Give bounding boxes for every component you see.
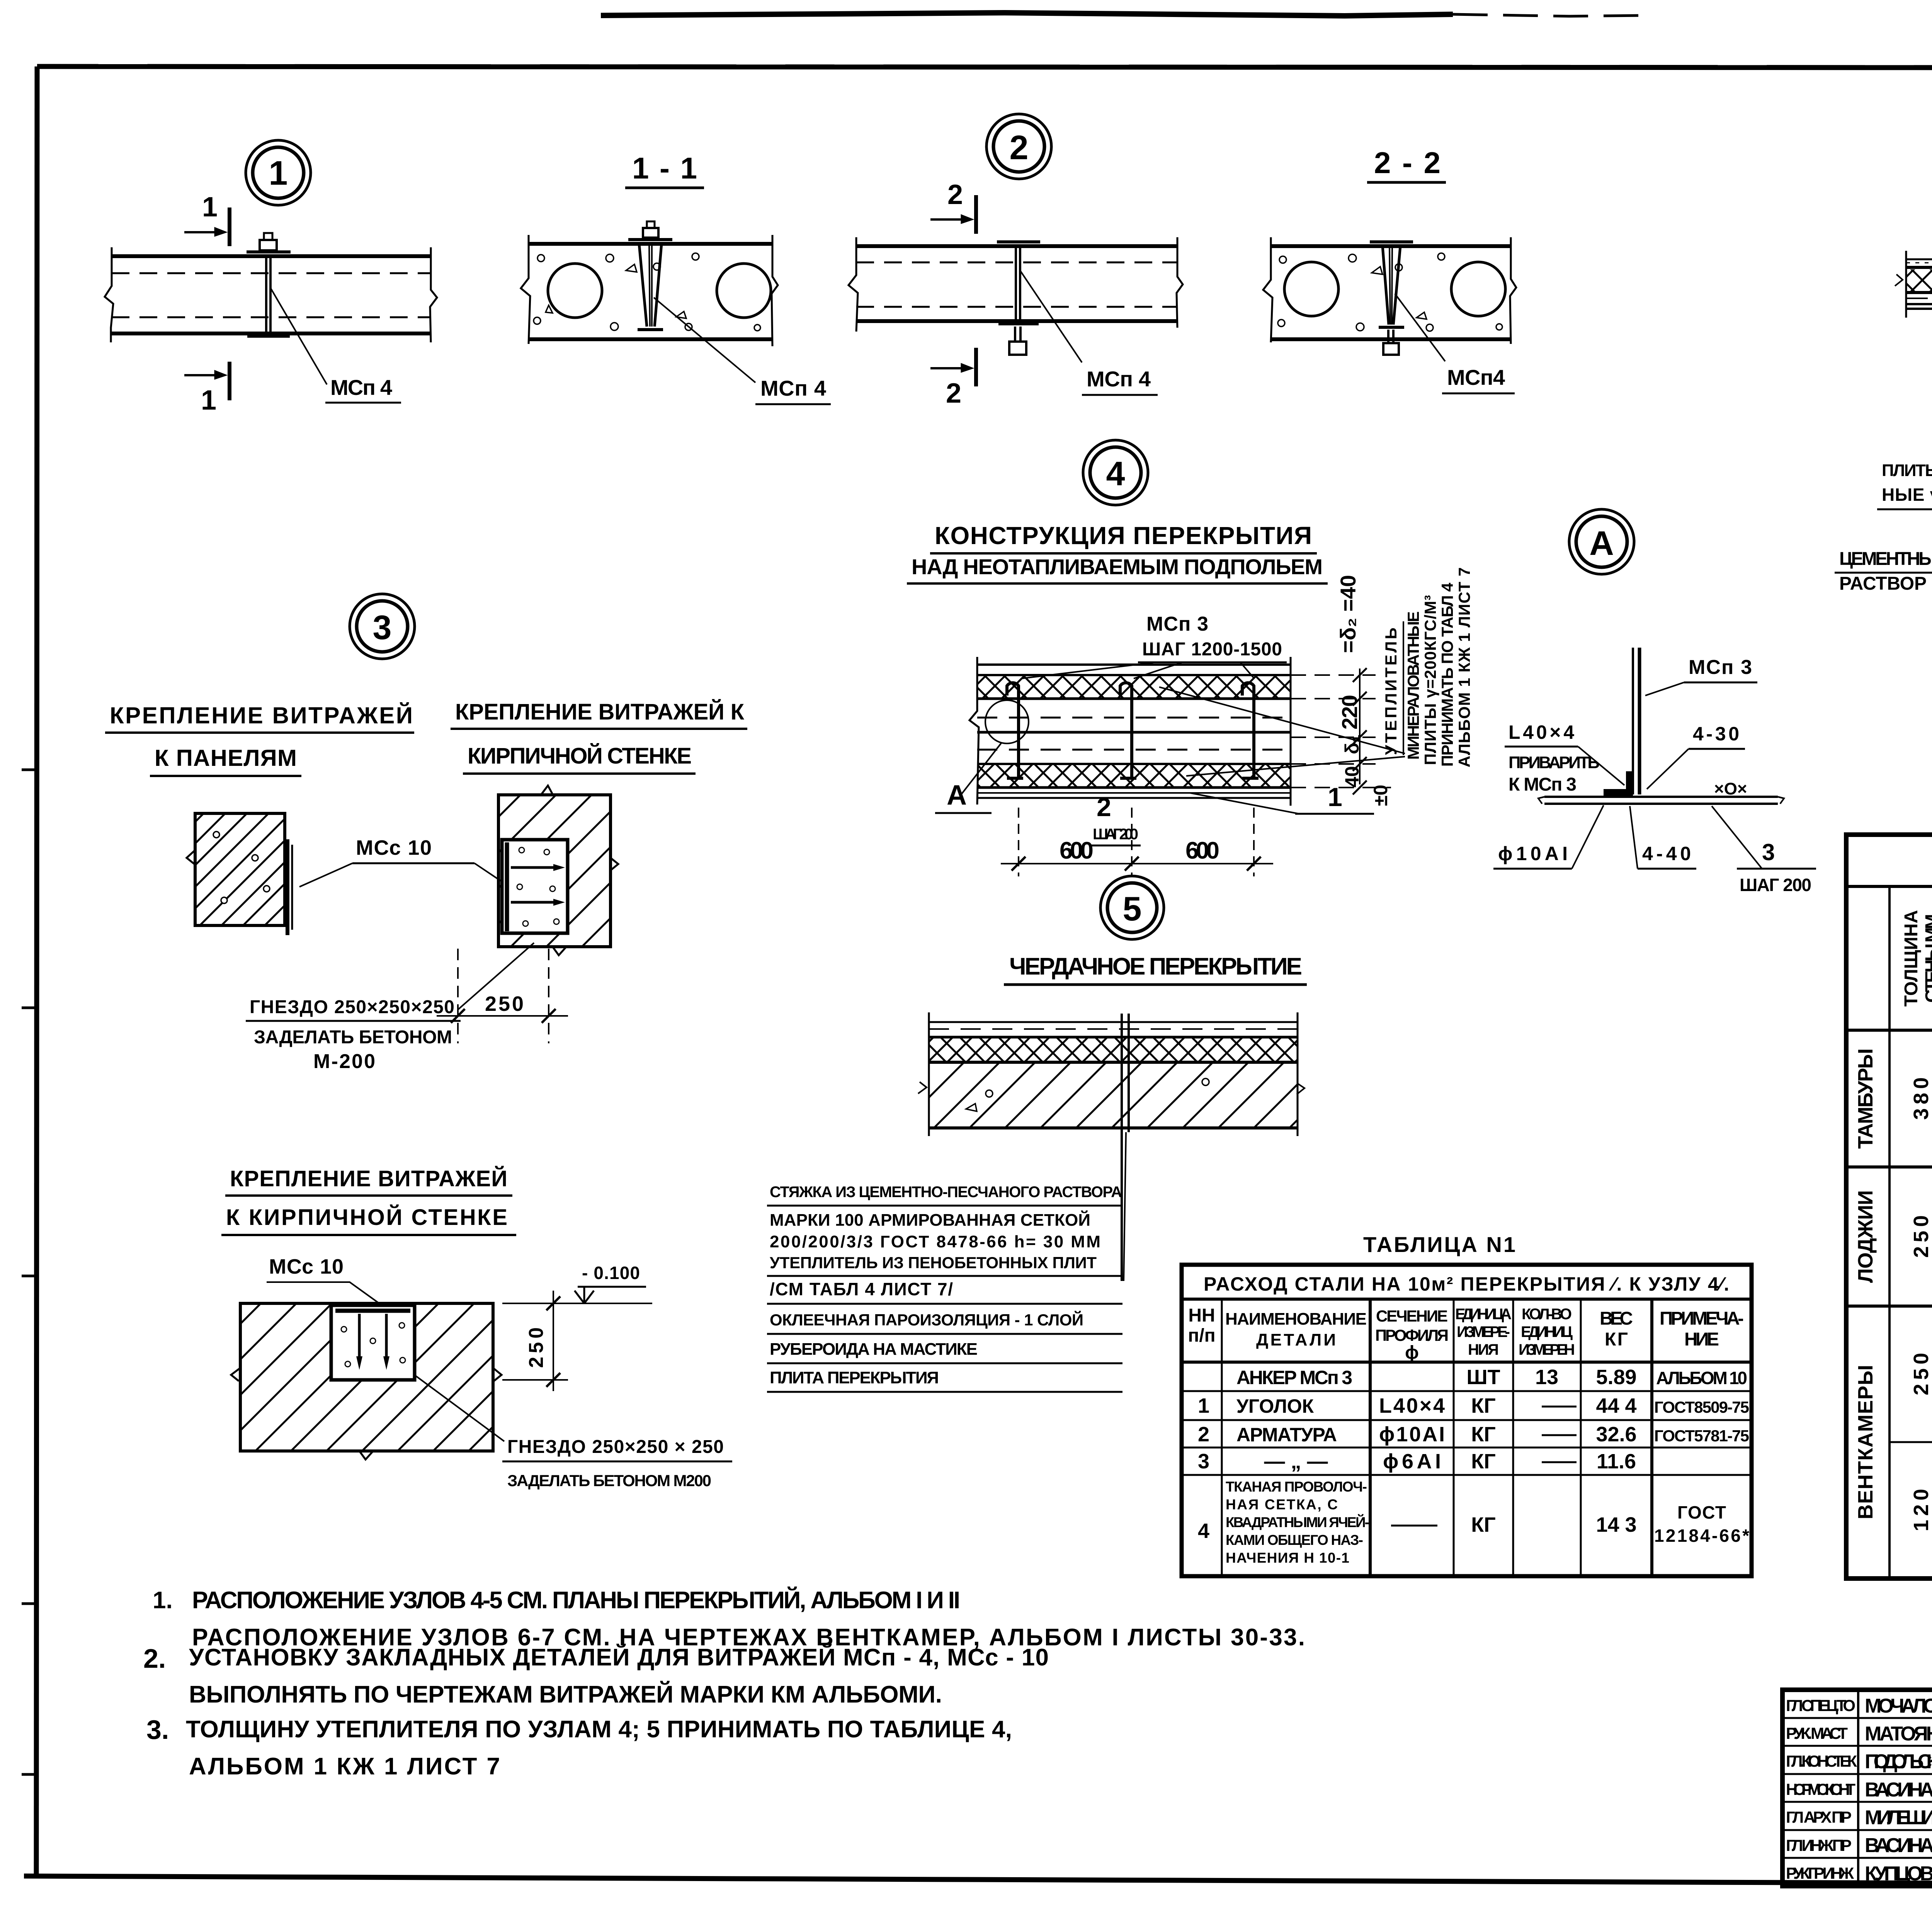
svg-text:600: 600 xyxy=(1060,837,1094,864)
socket with plate and anchors xyxy=(502,840,568,933)
base plate / slab line xyxy=(1544,796,1778,798)
svg-text:РАСТВОР: РАСТВОР xyxy=(1839,573,1927,594)
svg-text:ЦЕМЕНТНЫЙ: ЦЕМЕНТНЫЙ xyxy=(1839,548,1932,569)
svg-text:32.6: 32.6 xyxy=(1596,1423,1636,1446)
svg-text:ШАГ 200: ШАГ 200 xyxy=(1093,826,1138,843)
svg-text:ВЕС: ВЕС xyxy=(1600,1308,1633,1329)
svg-text:МОЧАЛОВ: МОЧАЛОВ xyxy=(1865,1695,1932,1717)
anchor МСп 4 xyxy=(247,233,291,336)
svg-text:250: 250 xyxy=(1910,1215,1932,1258)
svg-text:2: 2 xyxy=(947,179,963,210)
svg-text:220: 220 xyxy=(1337,695,1362,730)
svg-text:МИЛЕШИН: МИЛЕШИН xyxy=(1865,1806,1932,1829)
angle piece xyxy=(1604,771,1633,796)
svg-text:МСп 3: МСп 3 xyxy=(1689,656,1752,679)
svg-text:МСс 10: МСс 10 xyxy=(269,1255,344,1278)
svg-text:ГОСТ8509-75: ГОСТ8509-75 xyxy=(1654,1398,1749,1416)
svg-text:ГЛ. КОНСТЕК: ГЛ. КОНСТЕК xyxy=(1786,1752,1857,1770)
attic floor drawing xyxy=(918,1012,1304,1281)
header rotated texts xyxy=(1901,900,1932,1016)
left labels xyxy=(1786,1696,1857,1882)
svg-text:АЛЬБОМ 1 КЖ 1 ЛИСТ 7: АЛЬБОМ 1 КЖ 1 ЛИСТ 7 xyxy=(189,1753,500,1780)
svg-text:4: 4 xyxy=(1106,454,1125,493)
svg-text:НОРМОКОНТ: НОРМОКОНТ xyxy=(1786,1780,1855,1798)
svg-text:ɸ10АI: ɸ10АI xyxy=(1498,843,1568,864)
svg-text:НИЕ: НИЕ xyxy=(1684,1329,1719,1350)
svg-text:2.: 2. xyxy=(143,1643,166,1674)
svg-text:2: 2 xyxy=(1010,128,1029,167)
svg-text:п/п: п/п xyxy=(1188,1325,1215,1346)
svg-text:СТЯЖКА ИЗ ЦЕМЕНТНО-ПЕСЧАНОГО: СТЯЖКА ИЗ ЦЕМЕНТНО-ПЕСЧАНОГО РАСТВОРА xyxy=(770,1184,1122,1201)
svg-text:ВАСИНА: ВАСИНА xyxy=(1865,1834,1932,1857)
svg-text:ТОЛЩИНА: ТОЛЩИНА xyxy=(1901,910,1922,1007)
svg-text:5: 5 xyxy=(1123,890,1142,928)
svg-text:МАРКИ 100 АРМИРОВАННАЯ СЕТКО: МАРКИ 100 АРМИРОВАННАЯ СЕТКОЙ xyxy=(770,1210,1090,1230)
svg-text:ЕДИНИЦА: ЕДИНИЦА xyxy=(1455,1306,1512,1323)
svg-text:УТЕПЛИТЕЛЬ: УТЕПЛИТЕЛЬ xyxy=(1382,628,1400,755)
svg-text:250: 250 xyxy=(1910,1353,1932,1395)
leaders to rotated text xyxy=(1159,687,1405,754)
svg-text:1: 1 xyxy=(202,192,218,223)
svg-text:РУК. МАСТ: РУК. МАСТ xyxy=(1786,1724,1848,1742)
svg-text:380: 380 xyxy=(1910,1077,1932,1120)
svg-text:ЗАДЕЛАТЬ БЕТОНОМ М200: ЗАДЕЛАТЬ БЕТОНОМ М200 xyxy=(507,1471,711,1490)
svg-text:НАИМЕНОВАНИЕ: НАИМЕНОВАНИЕ xyxy=(1225,1310,1367,1328)
svg-text:К МСп 3: К МСп 3 xyxy=(1509,774,1577,795)
group labels rotated xyxy=(1854,1048,1932,1531)
svg-text:ШАГ 200: ШАГ 200 xyxy=(1740,875,1811,895)
svg-text:4-30: 4-30 xyxy=(1693,723,1739,745)
left rows xyxy=(1782,1717,1932,1719)
svg-text:600: 600 xyxy=(1185,837,1219,864)
svg-text:КРЕПЛЕНИЕ ВИТРАЖЕЙ: КРЕПЛЕНИЕ ВИТРАЖЕЙ xyxy=(230,1166,507,1191)
svg-text:2: 2 xyxy=(1198,1423,1209,1446)
svg-text:ПРИНИМАТЬ ПО ТАБЛ 4: ПРИНИМАТЬ ПО ТАБЛ 4 xyxy=(1438,582,1456,767)
svg-text:УГОЛОК: УГОЛОК xyxy=(1236,1395,1314,1417)
svg-text:1: 1 xyxy=(269,154,288,192)
svg-text:ТКАНАЯ ПРОВОЛОЧ-: ТКАНАЯ ПРОВОЛОЧ- xyxy=(1226,1479,1367,1495)
svg-text:КИРПИЧНОЙ СТЕНКЕ: КИРПИЧНОЙ СТЕНКЕ xyxy=(468,743,692,769)
svg-text:ГЛ ИНЖ ПР: ГЛ ИНЖ ПР xyxy=(1786,1836,1852,1854)
svg-text:ГНЕЗДО 250×250 × 250: ГНЕЗДО 250×250 × 250 xyxy=(507,1437,724,1457)
svg-text:4: 4 xyxy=(1198,1519,1209,1543)
svg-text:/СМ ТАБЛ 4 ЛИСТ 7/: /СМ ТАБЛ 4 ЛИСТ 7/ xyxy=(770,1279,953,1299)
svg-text:120: 120 xyxy=(1910,1489,1932,1531)
leader + label xyxy=(1020,270,1082,362)
cut mark 2 bottom xyxy=(930,348,976,386)
svg-text:ШАГ 1200-1500: ШАГ 1200-1500 xyxy=(1142,639,1282,660)
svg-text:×O×: ×O× xyxy=(1714,779,1747,798)
verticals xyxy=(1888,886,1891,1579)
svg-text:L40×4: L40×4 xyxy=(1379,1394,1445,1417)
svg-text:1: 1 xyxy=(1198,1394,1209,1417)
svg-text:2 - 2: 2 - 2 xyxy=(1374,146,1440,180)
svg-text:ɸ10АI: ɸ10АI xyxy=(1379,1423,1445,1446)
svg-text:КГ: КГ xyxy=(1471,1450,1496,1473)
left panel block xyxy=(187,813,292,935)
right dim chain xyxy=(1291,668,1391,794)
250 dim below xyxy=(437,949,568,1043)
svg-text:НАД НЕОТАПЛИВАЕМЫМ ПОДПОЛЬЕМ: НАД НЕОТАПЛИВАЕМЫМ ПОДПОЛЬЕМ xyxy=(912,555,1323,579)
wall block with socket xyxy=(240,1303,493,1451)
svg-text:АЛЬБОМ 1 КЖ 1 ЛИСТ 7: АЛЬБОМ 1 КЖ 1 ЛИСТ 7 xyxy=(1455,567,1473,767)
svg-text:1 - 1: 1 - 1 xyxy=(632,151,697,185)
leader xyxy=(270,288,327,384)
subgroup split at 3732 (всех кроме c0) xyxy=(1889,1441,1932,1443)
svg-text:АРМАТУРА: АРМАТУРА xyxy=(1236,1424,1337,1446)
svg-text:ИЗМЕРЕ-: ИЗМЕРЕ- xyxy=(1457,1323,1510,1340)
leader + label xyxy=(654,298,755,383)
slab with hollow cores xyxy=(521,235,778,346)
anchor wedge xyxy=(628,221,672,330)
svg-text:ПРОФИЛЯ: ПРОФИЛЯ xyxy=(1375,1326,1449,1344)
svg-text:СТЕНЫ ММ: СТЕНЫ ММ xyxy=(1922,914,1932,1003)
svg-text:НАЯ СЕТКА, С: НАЯ СЕТКА, С xyxy=(1226,1497,1338,1512)
right brick block xyxy=(498,786,618,955)
svg-text:200/200/3/3 ГОСТ 8478-66 h=: 200/200/3/3 ГОСТ 8478-66 h= 30 ММ xyxy=(770,1232,1100,1251)
svg-text:2: 2 xyxy=(946,378,961,409)
svg-text:УТЕПЛИТЕЛЬ ИЗ ПЕНОБЕТОННЫХ ПЛ: УТЕПЛИТЕЛЬ ИЗ ПЕНОБЕТОННЫХ ПЛИТ xyxy=(770,1254,1097,1272)
svg-text:5.89: 5.89 xyxy=(1596,1366,1636,1389)
МСс10 plate strip xyxy=(286,839,289,935)
svg-text:СЕЧЕНИЕ: СЕЧЕНИЕ xyxy=(1376,1307,1448,1325)
svg-text:1: 1 xyxy=(201,385,216,416)
svg-text:МСп 3: МСп 3 xyxy=(1146,613,1208,635)
joint double line xyxy=(1121,1014,1123,1281)
svg-text:НЫЕ γ= 300 КГ/М³: НЫЕ γ= 300 КГ/М³ xyxy=(1882,485,1932,505)
svg-text:ПОДОЛЬСКИЙ: ПОДОЛЬСКИЙ xyxy=(1865,1750,1932,1773)
floor construction xyxy=(969,657,1291,806)
svg-text:РАСПОЛОЖЕНИЕ УЗЛОВ 4-5 СМ.: РАСПОЛОЖЕНИЕ УЗЛОВ 4-5 СМ. ПЛАНЫ ПЕРЕКРЫ… xyxy=(192,1587,960,1614)
svg-text:=δ₂ =40: =δ₂ =40 xyxy=(1336,575,1360,653)
svg-text:МИНЕРАЛОВАТНЫЕ: МИНЕРАЛОВАТНЫЕ xyxy=(1404,611,1422,760)
vertical plate МСп3 xyxy=(1632,648,1634,794)
svg-text:ВЫПОЛНЯТЬ ПО ЧЕРТЕЖАМ ВИТР: ВЫПОЛНЯТЬ ПО ЧЕРТЕЖАМ ВИТРАЖЕЙ МАРКИ КМ … xyxy=(189,1681,942,1708)
anchors МСп3 (three) xyxy=(1007,683,1259,778)
svg-text:ЗАДЕЛАТЬ БЕТОНОМ: ЗАДЕЛАТЬ БЕТОНОМ xyxy=(254,1027,452,1048)
scan artifacts top xyxy=(601,3,1932,1915)
svg-text:ПЛИТЫ γ=200КГС/М³: ПЛИТЫ γ=200КГС/М³ xyxy=(1421,595,1439,765)
svg-text:КРЕПЛЕНИЕ ВИТРАЖЕЙ К: КРЕПЛЕНИЕ ВИТРАЖЕЙ К xyxy=(455,699,745,725)
svg-text:L40×4: L40×4 xyxy=(1509,721,1574,743)
svg-text:ПРИМЕЧА-: ПРИМЕЧА- xyxy=(1660,1308,1744,1329)
svg-text:МАТОЯН: МАТОЯН xyxy=(1865,1723,1932,1745)
svg-text:КУПЦОВ: КУПЦОВ xyxy=(1865,1863,1932,1885)
svg-text:ТОЛЩИНУ УТЕПЛИТЕЛЯ ПО УЗЛ: ТОЛЩИНУ УТЕПЛИТЕЛЯ ПО УЗЛАМ 4; 5 ПРИНИМА… xyxy=(186,1716,1012,1743)
svg-text:НН: НН xyxy=(1188,1305,1215,1326)
svg-text:К ПАНЕЛЯМ: К ПАНЕЛЯМ xyxy=(155,745,297,771)
svg-text:±0: ±0 xyxy=(1370,785,1391,806)
leader + гнездо text xyxy=(415,1376,504,1441)
svg-text:ЛОДЖИИ: ЛОДЖИИ xyxy=(1854,1190,1877,1283)
svg-text:РАСХОД СТАЛИ НА 10м² ПЕРЕК: РАСХОД СТАЛИ НА 10м² ПЕРЕКРЫТИЯ ⁄. К УЗЛ… xyxy=(1204,1273,1729,1295)
hollow core circles xyxy=(548,264,602,318)
svg-text:ВАСИНА: ВАСИНА xyxy=(1865,1779,1932,1801)
svg-text:4-40: 4-40 xyxy=(1642,843,1691,864)
svg-text:НИЯ: НИЯ xyxy=(1468,1341,1499,1358)
svg-text:ДЕТАЛИ: ДЕТАЛИ xyxy=(1256,1330,1336,1349)
svg-text:КВАДРАТНЫМИ ЯЧЕЙ-: КВАДРАТНЫМИ ЯЧЕЙ- xyxy=(1226,1514,1369,1530)
svg-text:ГЛ СПЕЦ.ТО: ГЛ СПЕЦ.ТО xyxy=(1786,1696,1855,1715)
node circle 5 xyxy=(1100,876,1164,939)
250 vertical dim xyxy=(502,1379,568,1381)
svg-text:250: 250 xyxy=(525,1327,548,1368)
svg-text:ВЕНТКАМЕРЫ: ВЕНТКАМЕРЫ xyxy=(1854,1365,1877,1519)
svg-text:12184-66*: 12184-66* xyxy=(1654,1526,1749,1546)
detail circle A xyxy=(985,700,1029,743)
svg-text:ОКЛЕЕЧНАЯ ПАРОИЗОЛЯЦИЯ - 1 СЛ: ОКЛЕЕЧНАЯ ПАРОИЗОЛЯЦИЯ - 1 СЛОЙ xyxy=(770,1310,1083,1329)
group separators xyxy=(1846,1165,1932,1169)
svg-text:40: 40 xyxy=(1341,766,1363,788)
svg-text:ТАБЛИЦА N1: ТАБЛИЦА N1 xyxy=(1363,1232,1515,1257)
node circle 3 xyxy=(350,594,415,659)
svg-text:ПЛИТЫ ПЕНОБЕТОН-: ПЛИТЫ ПЕНОБЕТОН- xyxy=(1882,461,1932,480)
svg-text:2: 2 xyxy=(1097,793,1111,822)
svg-text:13: 13 xyxy=(1535,1366,1558,1389)
svg-text:МСп 4: МСп 4 xyxy=(1087,367,1151,391)
svg-text:— „ —: — „ — xyxy=(1264,1450,1328,1473)
section cut mark 1 top xyxy=(184,208,230,246)
node circle 4 xyxy=(1083,440,1148,505)
svg-text:АНКЕР МСп 3: АНКЕР МСп 3 xyxy=(1236,1367,1352,1388)
svg-text:14 3: 14 3 xyxy=(1596,1513,1636,1536)
svg-text:3: 3 xyxy=(373,608,392,646)
svg-text:А: А xyxy=(1589,524,1614,562)
svg-text:ПЛИТА ПЕРЕКРЫТИЯ: ПЛИТА ПЕРЕКРЫТИЯ xyxy=(770,1368,939,1387)
svg-text:НАЧЕНИЯ Н 10-1: НАЧЕНИЯ Н 10-1 xyxy=(1226,1550,1349,1566)
panel slab plan xyxy=(105,247,437,342)
concrete speckles xyxy=(534,253,760,331)
svg-text:ГНЕЗДО 250×250×250: ГНЕЗДО 250×250×250 xyxy=(250,997,454,1017)
svg-text:3: 3 xyxy=(1198,1450,1209,1473)
svg-text:250: 250 xyxy=(485,992,524,1015)
node circle 1 xyxy=(246,140,311,205)
svg-text:11.6: 11.6 xyxy=(1597,1450,1636,1473)
svg-text:АЛЬБОМ 10: АЛЬБОМ 10 xyxy=(1656,1368,1747,1388)
svg-text:ЧЕРДАЧНОЕ ПЕРЕКРЫТИЕ: ЧЕРДАЧНОЕ ПЕРЕКРЫТИЕ xyxy=(1009,953,1302,980)
svg-text:КГ: КГ xyxy=(1471,1423,1496,1446)
fold ticks left edge xyxy=(22,770,37,1774)
svg-text:ГОСТ5781-75: ГОСТ5781-75 xyxy=(1654,1427,1749,1445)
leader to гнездо text xyxy=(458,943,534,1009)
svg-text:РУБЕРОИДА НА МАСТИКЕ: РУБЕРОИДА НА МАСТИКЕ xyxy=(770,1340,978,1359)
layers text block xyxy=(767,1184,1122,1392)
svg-text:ИЗМЕРЕН: ИЗМЕРЕН xyxy=(1519,1341,1575,1358)
svg-text:КРЕПЛЕНИЕ ВИТРАЖЕЙ: КРЕПЛЕНИЕ ВИТРАЖЕЙ xyxy=(110,703,413,728)
node circle A xyxy=(1569,509,1634,574)
svg-text:КОЛ-ВО: КОЛ-ВО xyxy=(1522,1306,1572,1323)
dimension 600+600 below xyxy=(1001,808,1273,876)
svg-text:КГ: КГ xyxy=(1471,1394,1496,1417)
svg-text:РУК ГР ИНЖ: РУК ГР ИНЖ xyxy=(1786,1864,1854,1882)
svg-text:ПРИВАРИТЬ: ПРИВАРИТЬ xyxy=(1509,753,1600,772)
svg-text:1.: 1. xyxy=(153,1587,173,1614)
svg-text:УСТАНОВКУ ЗАКЛАДНЫХ ДЕТАЛЕ: УСТАНОВКУ ЗАКЛАДНЫХ ДЕТАЛЕЙ ДЛЯ ВИТРАЖЕЙ… xyxy=(189,1644,1049,1671)
dashes in columns xyxy=(1542,1406,1577,1408)
svg-text:МСс 10: МСс 10 xyxy=(356,836,432,859)
svg-text:КОНСТРУКЦИЯ ПЕРЕКРЫТИЯ: КОНСТРУКЦИЯ ПЕРЕКРЫТИЯ xyxy=(935,522,1312,549)
svg-text:КГ: КГ xyxy=(1471,1513,1496,1536)
anchor with bolt below xyxy=(997,242,1040,355)
svg-text:3: 3 xyxy=(1762,839,1775,865)
svg-text:ТАМБУРЫ: ТАМБУРЫ xyxy=(1854,1048,1877,1149)
svg-text:А: А xyxy=(947,780,967,811)
node circle 2 xyxy=(986,114,1051,179)
svg-text:ɸ: ɸ xyxy=(1405,1342,1419,1363)
svg-text:МСп 4: МСп 4 xyxy=(330,375,392,400)
svg-text:МСп 4: МСп 4 xyxy=(760,376,826,400)
svg-text:КАМИ ОБЩЕГО НАЗ-: КАМИ ОБЩЕГО НАЗ- xyxy=(1226,1532,1363,1548)
svg-text:44 4: 44 4 xyxy=(1596,1394,1636,1417)
svg-text:ЕДИНИЦ: ЕДИНИЦ xyxy=(1521,1323,1573,1340)
svg-text:ШТ: ШТ xyxy=(1466,1366,1500,1389)
anchor wedge with bolt below xyxy=(1370,242,1413,355)
svg-text:- 0.100: - 0.100 xyxy=(582,1263,640,1283)
slab xyxy=(849,237,1183,332)
section cut mark 1 bottom xyxy=(184,362,230,400)
svg-text:3.: 3. xyxy=(146,1715,169,1745)
svg-text:ГЛ АРХ ПР: ГЛ АРХ ПР xyxy=(1786,1808,1852,1826)
roof slab layers xyxy=(1895,251,1932,318)
svg-text:М-200: М-200 xyxy=(313,1050,375,1073)
svg-text:МСп4: МСп4 xyxy=(1447,365,1505,390)
cut mark 2 top xyxy=(930,195,976,234)
